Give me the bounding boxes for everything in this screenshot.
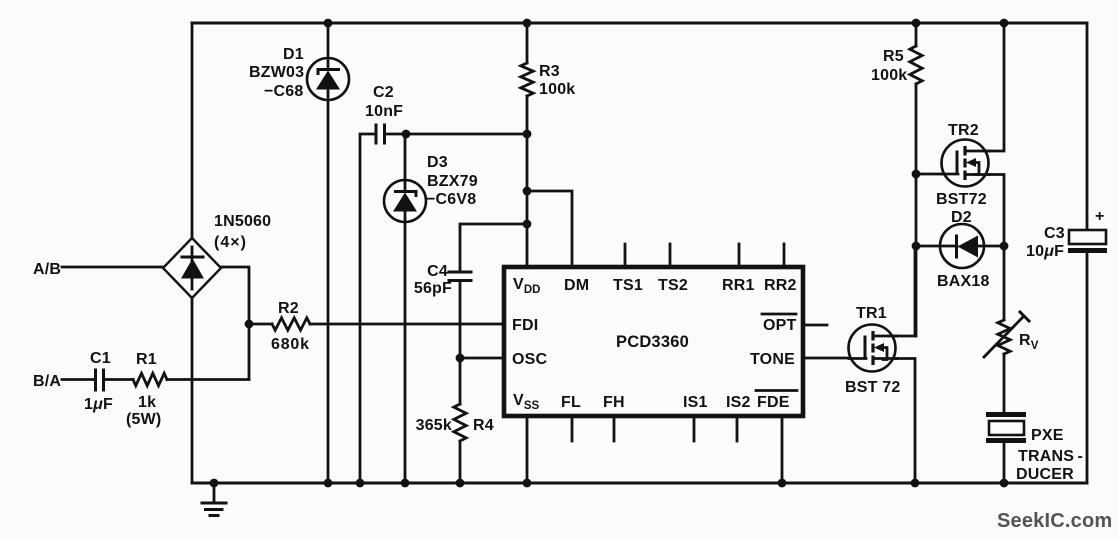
node top rail / D1 [324,19,333,28]
wire FL pin stub [571,416,574,441]
wire D2 anode lead [916,245,957,248]
resistor R1 [133,373,167,385]
wire right rail lower segment (C3 to bottom rail) [1086,252,1089,483]
wire TR1 source elbow down to bottom rail [875,359,915,484]
svg-text:TR2: TR2 [948,122,979,139]
node bottom rail / VSS [523,479,532,488]
wire R2 left lead from riser junction [249,323,272,326]
svg-text:56pF: 56pF [414,280,452,297]
wire D2 cathode node down to RV [1003,246,1006,320]
ground symbol [202,483,226,516]
resistor R4 [454,404,466,441]
PXE transducer (piezo) [986,412,1026,443]
wire D1 branch vertical (top rail through D1 to bottom rail) [327,23,330,60]
svg-text:FH: FH [603,394,625,411]
svg-text:C4: C4 [427,263,448,280]
svg-text:+: + [1095,208,1105,225]
wire OSC pin lead [460,357,504,360]
svg-text:OPT: OPT [763,317,797,334]
svg-text:D1: D1 [283,46,304,63]
wire C2 left plate elbow down to bottom rail [360,134,375,483]
wire bridge right vertex to riser, riser down to R1 wire [221,267,249,380]
svg-text:DM: DM [564,277,589,294]
node R5 line / TR2 gate [912,170,921,179]
node bottom rail / C2 [356,479,365,488]
wire IS2 pin stub [736,416,739,441]
capacitor C1 [96,370,104,390]
node riser / R2 tap [245,320,254,329]
wire C1 to R1 [104,378,133,381]
svg-text:10nF: 10nF [365,103,403,120]
capacitor C4 [449,272,471,281]
svg-text:TRANS -: TRANS - [1018,448,1083,465]
wire D2 cathode lead [977,245,1004,248]
wire TS1 pin stub [624,244,627,267]
svg-text:R2: R2 [278,300,299,317]
wire TONE pin to TR1 gate [803,357,865,360]
wire left drop from top rail to bridge top vertex [191,23,194,240]
wire bottom ground rail [192,482,1087,485]
wire B/A input lead to C1 [62,378,94,381]
wire bridge bottom vertex down to bottom rail [191,296,194,483]
node bottom rail / PXE [1000,479,1009,488]
wire R1 to vertical riser x=249 [167,378,249,381]
node VDD line / C4 elbow [523,220,532,229]
wire C4 top elbow from VDD line [460,224,527,271]
svg-text:TR1: TR1 [856,305,887,322]
wire PXE transducer to bottom rail [1003,443,1006,483]
wire RR1 pin stub [738,244,741,267]
svg-text:BST72: BST72 [936,191,987,208]
diode D2 BAX18 [940,224,984,268]
wire top supply rail [192,22,1087,25]
svg-text:A/B: A/B [33,261,61,278]
svg-text:FDI: FDI [512,317,538,334]
wire RR2 pin stub [783,244,786,267]
wire DM pin elbow from VDD line [527,191,572,267]
transistor TR2 BST72 MOSFET [942,140,991,187]
svg-text:C3: C3 [1044,225,1065,242]
svg-text:BZW03: BZW03 [249,64,304,81]
svg-text:R4: R4 [473,417,494,434]
svg-text:365k: 365k [416,417,452,434]
svg-text:FDE: FDE [757,394,790,411]
svg-text:1N5060: 1N5060 [214,213,271,230]
node top rail / R3 [523,19,532,28]
wire FDE pin down to bottom rail [781,416,784,483]
svg-text:R3: R3 [539,63,560,80]
wire TR2 gate lead [916,173,957,176]
svg-text:R5: R5 [883,48,904,65]
bridge rectifier 1N5060 (4x) diamond [163,238,221,298]
variable resistor RV [984,312,1029,357]
svg-text:(5W): (5W) [126,411,161,428]
svg-text:OSC: OSC [512,351,548,368]
svg-text:IS1: IS1 [683,394,708,411]
node C2-D3 [402,130,411,139]
svg-text:IS2: IS2 [726,394,751,411]
svg-text:100k: 100k [539,81,575,98]
wire IS1 pin stub [693,416,696,441]
svg-text:680k: 680k [271,336,310,353]
wire C2 right plate to D3 node [385,133,406,136]
svg-text:C1: C1 [90,350,111,367]
node top rail / R5 [912,19,921,28]
diode D1 zener BZW03-C68 [307,58,349,100]
svg-text:BAX18: BAX18 [937,273,990,290]
wire OPT pin stub [803,324,827,327]
wire R4 bottom lead to bottom rail [459,441,462,483]
resistor R5 [910,46,922,84]
node bottom rail / FDE [778,479,787,488]
svg-text:−C6V8: −C6V8 [426,191,476,208]
svg-text:SeekIC.com: SeekIC.com [997,510,1112,532]
svg-text:100k: 100k [871,67,907,84]
svg-text:R1: R1 [136,351,157,368]
diode D3 zener BZX79-C6V8 [384,180,426,222]
svg-text:D3: D3 [427,154,448,171]
svg-text:TS2: TS2 [658,277,688,294]
svg-text:RR2: RR2 [764,277,797,294]
wire R5 bottom lead down through TR2-gate and D2 nodes to TR1 drain elbow [915,84,918,336]
svg-text:B/A: B/A [33,373,61,390]
node R3-C2 line [523,130,532,139]
svg-text:DUCER: DUCER [1016,466,1074,483]
IC U1 PCD3360 body [504,267,803,416]
svg-text:PXE: PXE [1031,427,1064,444]
wire C4 bottom through OSC node to R4 [459,281,462,404]
wire A/B input lead [62,266,164,269]
svg-text:1μF: 1μF [84,396,113,413]
svg-text:−C68: −C68 [264,83,304,100]
wire TR2 drain elbow up to top rail [966,23,1004,151]
svg-text:BST 72: BST 72 [845,379,900,396]
svg-text:D2: D2 [951,209,972,226]
node bottom rail / D1 [324,479,333,488]
capacitor C2 [376,125,385,143]
node bottom rail / D3 [401,479,410,488]
node bottom rail / TR1 source [911,479,920,488]
wire TS2 pin stub [669,244,672,267]
node D2 anode [912,242,921,251]
wire VSS pin down to bottom rail [526,416,529,483]
node D2 cathode [1000,242,1009,251]
wire right rail upper segment (top rail to C3) [1086,23,1089,231]
svg-text:TS1: TS1 [613,277,643,294]
svg-text:(4×): (4×) [214,234,247,251]
svg-text:1k: 1k [138,394,156,411]
node bottom rail / R4 [456,479,465,488]
wire RV to PXE transducer [1003,354,1006,412]
svg-text:TONE: TONE [750,351,795,368]
node top rail / TR2 drain [1000,19,1009,28]
capacitor C3 electrolytic 10uF [1068,230,1107,253]
wire FH pin stub [613,416,616,441]
svg-text:RR1: RR1 [722,277,755,294]
svg-text:C2: C2 [373,84,394,101]
transistor TR1 BST72 MOSFET [849,325,898,372]
svg-text:FL: FL [561,394,581,411]
wire R3 top lead from top rail [526,23,529,63]
wire R3 bottom lead down to VDD pin of PCD3360 [526,96,529,267]
wire D3 branch vertical down to bottom rail [404,134,407,483]
svg-text:BZX79: BZX79 [427,173,478,190]
wire TR1 drain elbow up to R5/D2 line [875,246,915,336]
wire node D3 to R3 node [406,133,527,136]
wire TR2 source elbow down to D2 cathode node [966,175,1004,247]
node VDD line / DM elbow [523,187,532,196]
svg-text:10μF: 10μF [1026,243,1064,260]
svg-text:PCD3360: PCD3360 [616,333,689,351]
resistor R2 [272,318,310,330]
node bottom rail / ground [210,479,219,488]
resistor R3 [521,63,533,96]
wire R2 to FDI pin of PCD3360 [310,323,504,326]
node OSC / C4-R4 [456,354,465,363]
wire R5 top lead from top rail [915,23,918,46]
